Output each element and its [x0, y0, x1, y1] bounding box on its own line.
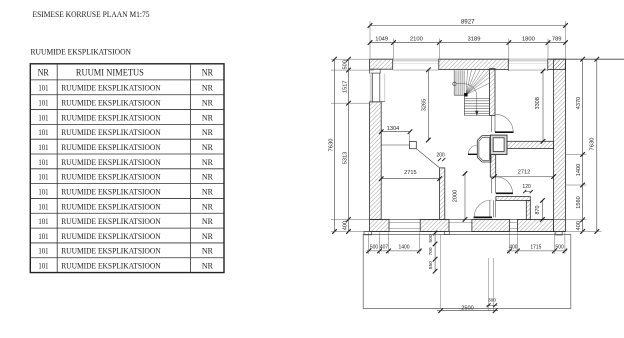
svg-text:120: 120 — [522, 184, 531, 190]
svg-text:NR: NR — [202, 157, 213, 167]
svg-text:500: 500 — [555, 245, 564, 251]
svg-text:1517: 1517 — [342, 81, 348, 93]
svg-text:1400: 1400 — [576, 164, 582, 176]
svg-text:500: 500 — [428, 234, 434, 242]
svg-text:NR: NR — [202, 201, 213, 211]
svg-text:300: 300 — [488, 298, 496, 304]
svg-text:1560: 1560 — [576, 196, 582, 208]
svg-text:500: 500 — [370, 245, 379, 251]
svg-text:101: 101 — [38, 246, 48, 256]
svg-text:NR: NR — [202, 112, 213, 122]
svg-text:1400: 1400 — [398, 245, 409, 251]
svg-text:101: 101 — [38, 112, 48, 122]
svg-text:5313: 5313 — [342, 152, 348, 164]
svg-text:1715: 1715 — [530, 245, 541, 251]
svg-text:RUUMIDE EKSPLIKATSIOON: RUUMIDE EKSPLIKATSIOON — [31, 46, 132, 56]
svg-text:NR: NR — [202, 127, 213, 137]
svg-text:7630: 7630 — [328, 139, 334, 152]
svg-text:101: 101 — [38, 261, 48, 271]
svg-text:400: 400 — [342, 221, 348, 230]
svg-text:NR: NR — [38, 68, 50, 78]
svg-text:4370: 4370 — [576, 97, 582, 109]
svg-text:NR: NR — [202, 142, 213, 152]
svg-text:RUUMIDE EKSPLIKATSIOON: RUUMIDE EKSPLIKATSIOON — [61, 98, 161, 108]
svg-text:101: 101 — [38, 216, 48, 226]
svg-text:101: 101 — [38, 201, 48, 211]
svg-text:200: 200 — [436, 152, 445, 158]
svg-text:101: 101 — [38, 186, 48, 196]
svg-text:101: 101 — [38, 127, 48, 137]
svg-text:RUUMIDE EKSPLIKATSIOON: RUUMIDE EKSPLIKATSIOON — [61, 157, 161, 167]
svg-text:400: 400 — [509, 245, 518, 251]
svg-text:NR: NR — [202, 216, 213, 226]
svg-text:7630: 7630 — [590, 138, 596, 151]
svg-text:RUUMIDE EKSPLIKATSIOON: RUUMIDE EKSPLIKATSIOON — [61, 83, 161, 93]
svg-text:RUUMIDE EKSPLIKATSIOON: RUUMIDE EKSPLIKATSIOON — [61, 261, 161, 271]
svg-text:NR: NR — [202, 83, 213, 93]
svg-text:101: 101 — [38, 172, 48, 182]
svg-text:RUUMIDE EKSPLIKATSIOON: RUUMIDE EKSPLIKATSIOON — [61, 172, 161, 182]
svg-text:700: 700 — [428, 247, 434, 255]
svg-text:RUUMIDE EKSPLIKATSIOON: RUUMIDE EKSPLIKATSIOON — [61, 112, 161, 122]
svg-text:3189: 3189 — [468, 36, 481, 42]
svg-text:101: 101 — [38, 231, 48, 241]
svg-text:1800: 1800 — [522, 36, 535, 42]
svg-text:2715: 2715 — [404, 170, 416, 176]
svg-text:400: 400 — [576, 221, 582, 230]
svg-text:101: 101 — [38, 157, 48, 167]
svg-text:550: 550 — [428, 261, 434, 269]
svg-text:3265: 3265 — [422, 99, 428, 111]
svg-text:RUUMIDE EKSPLIKATSIOON: RUUMIDE EKSPLIKATSIOON — [61, 186, 161, 196]
svg-text:NR: NR — [202, 261, 213, 271]
svg-text:1304: 1304 — [387, 126, 399, 132]
svg-text:870: 870 — [535, 206, 541, 215]
svg-text:RUUMIDE EKSPLIKATSIOON: RUUMIDE EKSPLIKATSIOON — [61, 246, 161, 256]
svg-text:ESIMESE KORRUSE PLAAN M1:75: ESIMESE KORRUSE PLAAN M1:75 — [33, 9, 151, 19]
svg-text:NR: NR — [202, 246, 213, 256]
svg-text:500: 500 — [342, 60, 348, 69]
svg-text:2000: 2000 — [453, 190, 459, 202]
svg-text:789: 789 — [552, 36, 562, 42]
svg-text:RUUMIDE EKSPLIKATSIOON: RUUMIDE EKSPLIKATSIOON — [61, 127, 161, 137]
svg-text:RUUMI NIMETUS: RUUMI NIMETUS — [76, 68, 144, 78]
svg-text:101: 101 — [38, 83, 48, 93]
svg-text:NR: NR — [202, 68, 214, 78]
svg-text:101: 101 — [38, 142, 48, 152]
svg-text:101: 101 — [38, 98, 48, 108]
svg-text:8927: 8927 — [461, 18, 475, 25]
svg-text:NR: NR — [202, 172, 213, 182]
svg-text:RUUMIDE EKSPLIKATSIOON: RUUMIDE EKSPLIKATSIOON — [61, 201, 161, 211]
svg-text:RUUMIDE EKSPLIKATSIOON: RUUMIDE EKSPLIKATSIOON — [61, 231, 161, 241]
svg-text:2500: 2500 — [461, 306, 473, 312]
svg-text:2712: 2712 — [518, 169, 530, 175]
svg-text:2100: 2100 — [410, 36, 423, 42]
svg-text:RUUMIDE EKSPLIKATSIOON: RUUMIDE EKSPLIKATSIOON — [61, 216, 161, 226]
svg-text:RUUMIDE EKSPLIKATSIOON: RUUMIDE EKSPLIKATSIOON — [61, 142, 161, 152]
svg-text:NR: NR — [202, 98, 213, 108]
svg-text:NR: NR — [202, 186, 213, 196]
svg-text:NR: NR — [202, 231, 213, 241]
svg-text:3308: 3308 — [535, 97, 541, 109]
svg-text:407: 407 — [380, 245, 389, 251]
svg-text:1049: 1049 — [375, 36, 388, 42]
